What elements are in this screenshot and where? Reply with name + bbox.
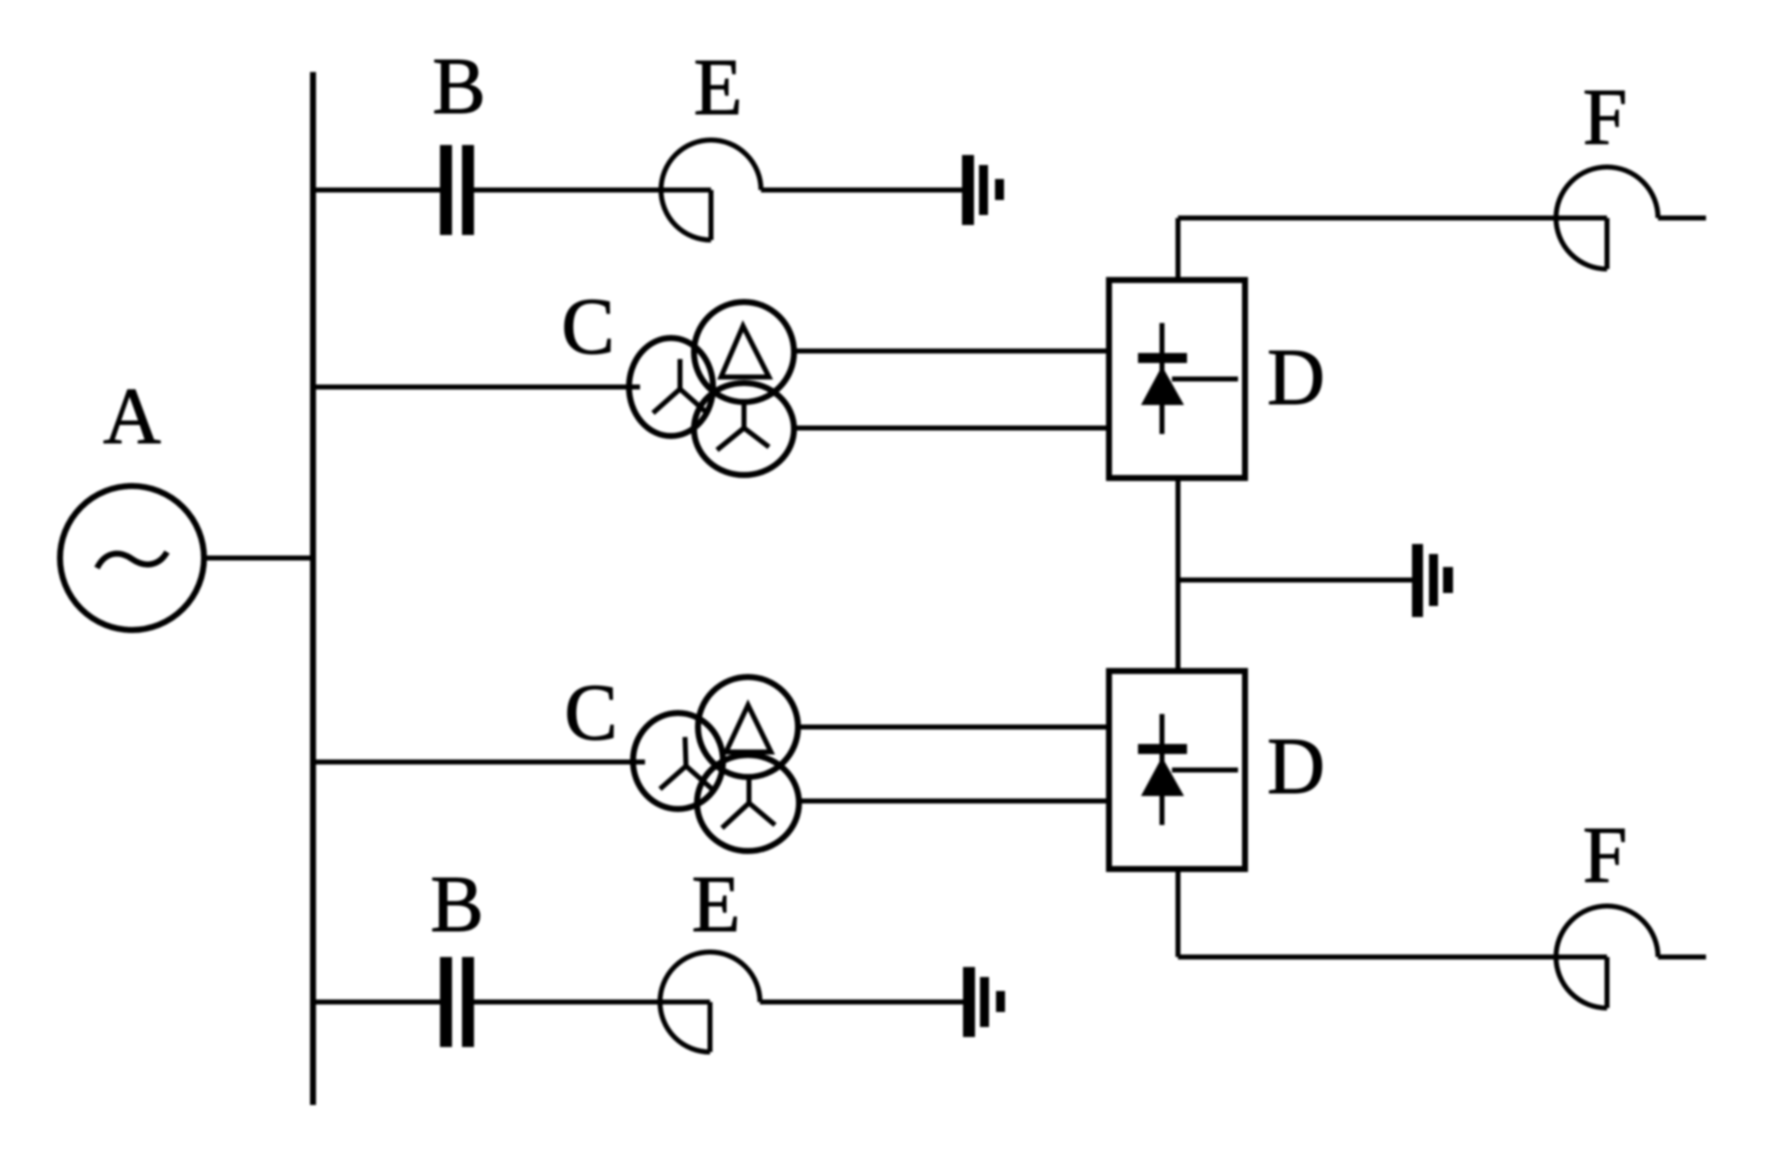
svg-text:E: E [694,44,743,132]
svg-text:F: F [1583,74,1628,162]
svg-text:B: B [430,861,483,949]
svg-text:C: C [564,669,617,757]
svg-text:D: D [1267,334,1325,422]
svg-text:A: A [103,373,161,461]
svg-text:F: F [1583,812,1628,900]
svg-text:B: B [432,43,485,131]
svg-text:C: C [561,283,614,371]
svg-text:D: D [1267,723,1325,811]
svg-text:E: E [692,861,741,949]
